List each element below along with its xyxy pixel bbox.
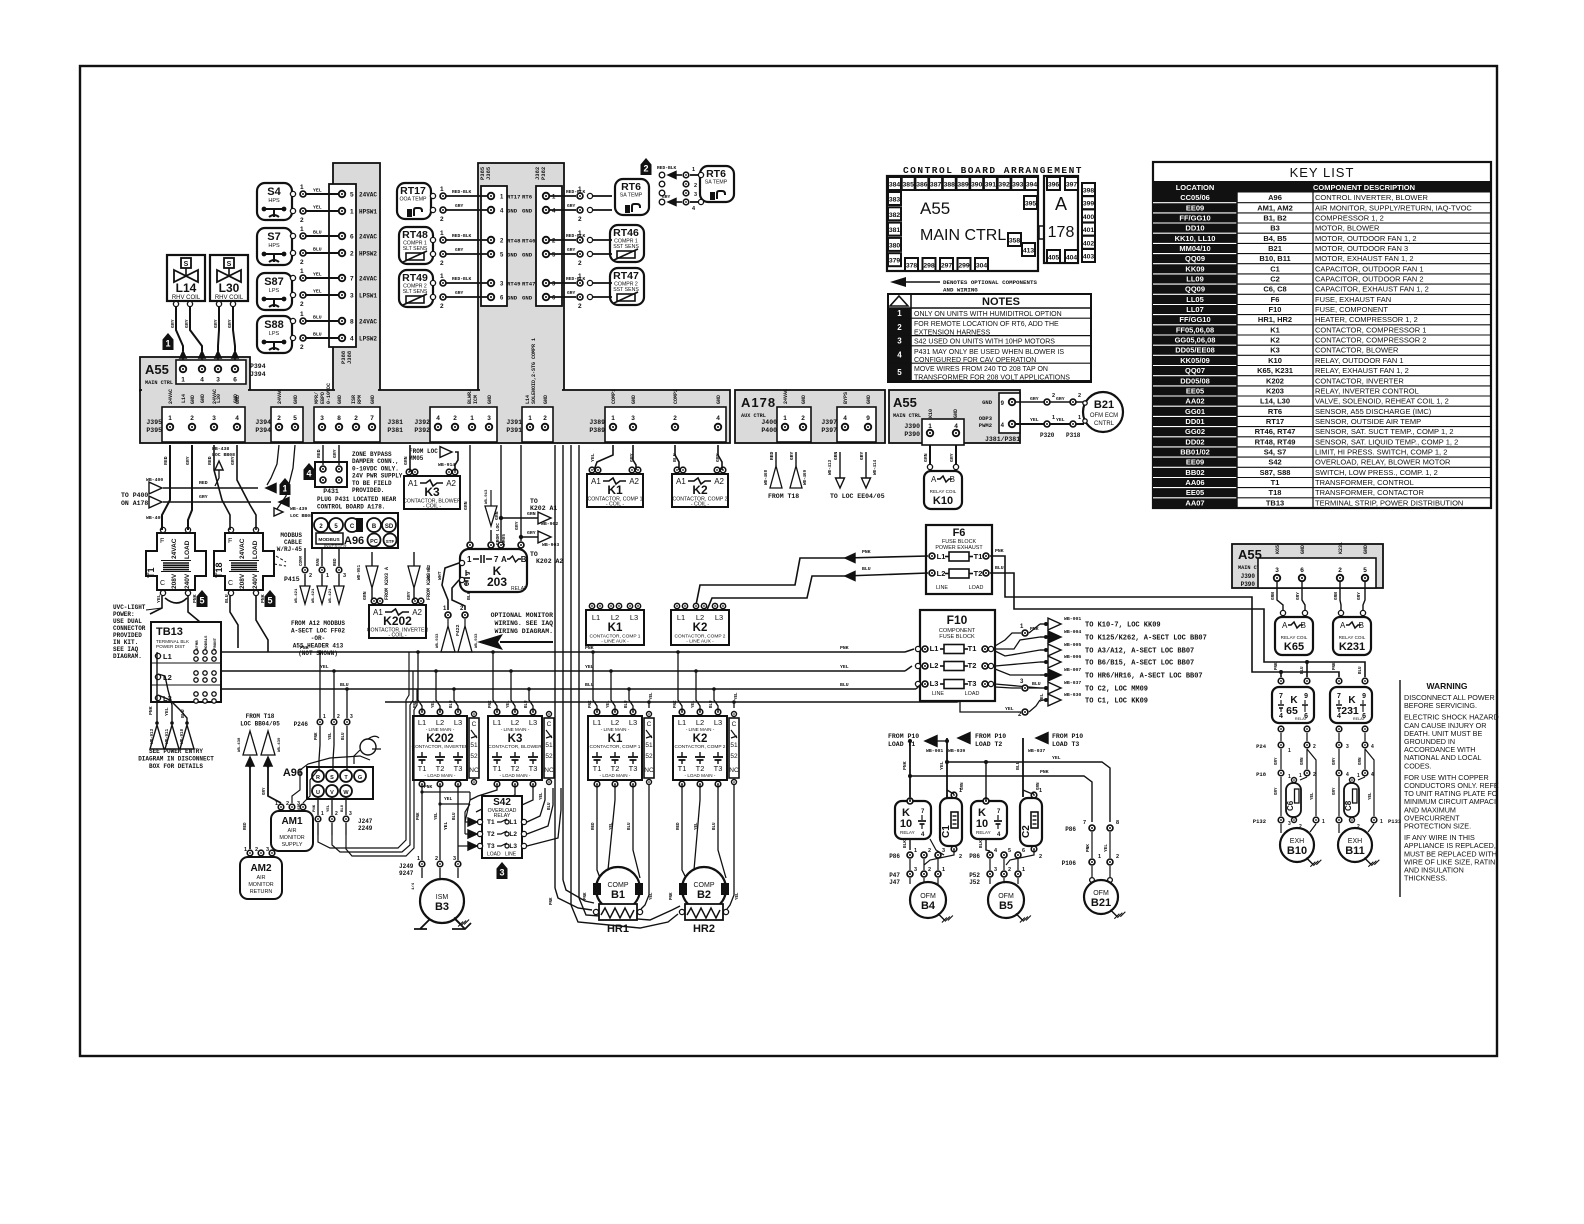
- svg-text:24V PWR SUPPLY: 24V PWR SUPPLY: [352, 473, 403, 480]
- svg-text:L1: L1: [493, 718, 501, 727]
- svg-text:3: 3: [350, 293, 354, 300]
- svg-text:8: 8: [1116, 820, 1119, 826]
- svg-text:3: 3: [1288, 821, 1291, 827]
- svg-text:LPSW2: LPSW2: [359, 336, 377, 343]
- svg-text:YEL: YEL: [692, 700, 696, 708]
- svg-text:B1, B2: B1, B2: [1263, 213, 1286, 222]
- svg-text:SLT SENS: SLT SENS: [403, 246, 428, 252]
- svg-text:3: 3: [453, 856, 456, 862]
- svg-text:WB-903: WB-903: [542, 542, 559, 548]
- svg-text:YEL: YEL: [1005, 706, 1014, 712]
- svg-text:HR2: HR2: [693, 923, 715, 935]
- svg-text:7: 7: [1083, 820, 1086, 826]
- svg-text:OFM ECM: OFM ECM: [1090, 413, 1118, 419]
- svg-text:SA TEMP: SA TEMP: [620, 193, 643, 199]
- svg-text:C: C: [472, 721, 477, 728]
- svg-text:GRN: GRN: [1359, 757, 1363, 765]
- svg-text:T3: T3: [487, 843, 495, 850]
- svg-text:LOC BB08: LOC BB08: [290, 513, 313, 519]
- svg-text:L1: L1: [163, 652, 172, 661]
- svg-text:208V: 208V: [239, 573, 246, 589]
- svg-text:208V: 208V: [171, 573, 178, 589]
- svg-text:SLT SENS: SLT SENS: [403, 289, 428, 295]
- svg-text:CONTROL BOARD ARRANGEMENT: CONTROL BOARD ARRANGEMENT: [903, 165, 1083, 176]
- svg-text:52: 52: [545, 753, 553, 760]
- svg-text:6: 6: [1022, 848, 1025, 854]
- svg-text:1: 1: [300, 268, 304, 275]
- svg-text:BLU: BLU: [224, 594, 230, 603]
- svg-text:RELAY: RELAY: [900, 830, 915, 835]
- svg-text:RED-BLK: RED-BLK: [452, 233, 472, 239]
- svg-text:CONTACTOR, COMP 1: CONTACTOR, COMP 1: [590, 744, 641, 750]
- svg-text:2: 2: [190, 415, 194, 422]
- svg-text:- LINE MAIN -: - LINE MAIN -: [601, 727, 630, 732]
- svg-text:C: C: [547, 721, 552, 728]
- svg-text:1: 1: [897, 309, 902, 318]
- svg-text:EE09: EE09: [1186, 203, 1204, 212]
- svg-text:V: V: [330, 790, 334, 796]
- svg-text:PNK: PNK: [995, 548, 1004, 554]
- svg-text:3: 3: [942, 848, 945, 854]
- svg-text:GRN: GRN: [463, 501, 469, 510]
- svg-text:DD10: DD10: [1185, 224, 1204, 233]
- svg-text:K2: K2: [1270, 336, 1280, 345]
- svg-text:BLK: BLK: [466, 591, 472, 600]
- svg-text:MM05: MM05: [501, 534, 507, 545]
- svg-text:1: 1: [1357, 773, 1360, 779]
- svg-text:PNK: PNK: [862, 549, 871, 555]
- svg-text:P246: P246: [294, 721, 309, 728]
- svg-text:DIAGRAM.: DIAGRAM.: [113, 653, 142, 660]
- svg-text:2: 2: [543, 415, 547, 422]
- svg-text:FF/GG10: FF/GG10: [1179, 315, 1210, 324]
- svg-text:OFM: OFM: [1093, 890, 1109, 897]
- svg-text:PWM2: PWM2: [979, 422, 992, 429]
- svg-text:- LINE AUX -: - LINE AUX -: [686, 639, 714, 645]
- svg-text:GND: GND: [507, 295, 518, 302]
- svg-text:P318: P318: [1066, 432, 1081, 439]
- svg-text:1: 1: [165, 339, 170, 349]
- svg-text:RED-BLK: RED-BLK: [657, 165, 677, 171]
- svg-text:FRONT: FRONT: [214, 637, 218, 650]
- svg-text:(NOT SHOWN): (NOT SHOWN): [298, 650, 338, 657]
- svg-text:1: 1: [692, 167, 695, 173]
- svg-text:T1: T1: [1271, 478, 1280, 487]
- svg-text:S42 USED ON UNITS WITH 10HP MO: S42 USED ON UNITS WITH 10HP MOTORS: [914, 339, 1055, 346]
- svg-text:2: 2: [1052, 393, 1055, 399]
- svg-text:MOTOR, OUTDOOR FAN 1, 2: MOTOR, OUTDOOR FAN 1, 2: [1315, 234, 1417, 243]
- svg-text:P389: P389: [589, 427, 605, 434]
- svg-text:YEL: YEL: [607, 700, 611, 708]
- svg-text:YEL: YEL: [1039, 693, 1045, 702]
- svg-text:1: 1: [1380, 819, 1383, 825]
- svg-text:LPS: LPS: [269, 331, 280, 337]
- svg-text:PNK: PNK: [315, 732, 319, 740]
- svg-text:BLK: BLK: [979, 840, 984, 848]
- svg-text:T2: T2: [974, 569, 983, 578]
- svg-text:K202: K202: [1266, 376, 1284, 385]
- svg-text:GRN: GRN: [362, 591, 368, 600]
- svg-text:4: 4: [235, 415, 239, 422]
- svg-text:CONTACTOR, COMP 2: CONTACTOR, COMP 2: [675, 744, 726, 750]
- svg-text:RELAY, EXHAUST FAN 1, 2: RELAY, EXHAUST FAN 1, 2: [1315, 366, 1409, 375]
- svg-text:MAIN CTRL: MAIN CTRL: [920, 227, 1006, 244]
- svg-text:WIRING. SEE IAQ: WIRING. SEE IAQ: [494, 620, 553, 627]
- svg-text:C8: C8: [1344, 800, 1353, 811]
- svg-text:GND: GND: [487, 395, 493, 404]
- svg-text:FUSE, EXHAUST FAN: FUSE, EXHAUST FAN: [1315, 295, 1391, 304]
- svg-text:A55: A55: [920, 199, 950, 218]
- svg-text:ONLY ON UNITS WITH HUMIDITROL: ONLY ON UNITS WITH HUMIDITROL OPTION: [914, 311, 1062, 318]
- svg-text:BEFORE SERVICING.: BEFORE SERVICING.: [1404, 701, 1477, 710]
- svg-text:LOAD T2: LOAD T2: [975, 741, 1002, 748]
- svg-text:RELAY, INVERTER CONTROL: RELAY, INVERTER CONTROL: [1315, 386, 1419, 395]
- svg-text:S: S: [227, 261, 232, 268]
- svg-text:403: 403: [1083, 254, 1095, 261]
- svg-text:LOC BB08: LOC BB08: [212, 452, 235, 458]
- svg-text:POWER DIST: POWER DIST: [156, 644, 185, 649]
- svg-text:5: 5: [1363, 567, 1367, 574]
- svg-text:1: 1: [578, 186, 582, 193]
- svg-text:RED-BLK: RED-BLK: [566, 276, 586, 282]
- svg-text:383: 383: [889, 197, 901, 204]
- svg-text:T2: T2: [436, 764, 445, 773]
- svg-text:2: 2: [801, 415, 805, 422]
- svg-text:178: 178: [1048, 224, 1075, 241]
- svg-text:RT46: RT46: [522, 238, 536, 245]
- svg-text:SWITCH, LOW PRESS., COMP. 1, 2: SWITCH, LOW PRESS., COMP. 1, 2: [1315, 468, 1438, 477]
- svg-text:SOLENOID,2-STG COMPR 1: SOLENOID,2-STG COMPR 1: [531, 338, 537, 404]
- svg-text:2: 2: [1039, 854, 1042, 860]
- svg-text:1: 1: [300, 184, 304, 191]
- svg-text:CABLE: CABLE: [284, 539, 302, 546]
- svg-text:AM1: AM1: [281, 816, 303, 827]
- svg-text:LOAD: LOAD: [487, 852, 501, 858]
- svg-text:1: 1: [470, 415, 474, 422]
- svg-text:1: 1: [914, 848, 917, 854]
- svg-text:GND: GND: [522, 252, 533, 259]
- svg-text:C: C: [228, 580, 233, 587]
- svg-text:OVERLOAD, RELAY, BLOWER MOTOR: OVERLOAD, RELAY, BLOWER MOTOR: [1315, 458, 1451, 467]
- svg-text:7: 7: [1279, 693, 1283, 700]
- svg-text:WB-004: WB-004: [1064, 629, 1081, 635]
- svg-text:-OR-: -OR-: [311, 635, 325, 642]
- svg-text:A178: A178: [741, 395, 776, 410]
- svg-text:C: C: [732, 721, 737, 728]
- svg-text:GRN: GRN: [923, 453, 929, 462]
- svg-text:LIMIT, HI PRESS. SWITCH, COMP: LIMIT, HI PRESS. SWITCH, COMP 1, 2: [1315, 448, 1447, 457]
- svg-text:QQ07: QQ07: [1185, 366, 1205, 375]
- svg-text:B11: B11: [1345, 845, 1365, 857]
- svg-text:SST SENS: SST SENS: [613, 244, 639, 250]
- svg-text:P381: P381: [387, 427, 403, 434]
- svg-text:DD05/EE08: DD05/EE08: [1175, 346, 1215, 355]
- svg-text:1: 1: [928, 423, 932, 430]
- svg-text:YEL: YEL: [435, 812, 439, 820]
- svg-text:WB-933: WB-933: [436, 633, 440, 648]
- svg-text:SEE POWER ENTRY: SEE POWER ENTRY: [149, 748, 203, 755]
- svg-text:1: 1: [1288, 748, 1291, 754]
- svg-text:L14: L14: [181, 394, 187, 403]
- svg-text:0-10VDC ONLY.: 0-10VDC ONLY.: [352, 465, 399, 472]
- svg-text:P390: P390: [904, 431, 920, 438]
- svg-text:304: 304: [976, 263, 988, 270]
- svg-text:FROM T18: FROM T18: [246, 713, 275, 720]
- svg-text:RT47: RT47: [613, 270, 639, 282]
- svg-text:2: 2: [959, 854, 962, 860]
- svg-text:HPSW2: HPSW2: [359, 251, 377, 258]
- svg-text:2: 2: [694, 183, 697, 189]
- svg-text:WB-910: WB-910: [181, 728, 185, 744]
- svg-text:380: 380: [889, 242, 901, 249]
- svg-text:2: 2: [354, 415, 358, 422]
- svg-text:CAPACITOR, OUTDOOR FAN 1: CAPACITOR, OUTDOOR FAN 1: [1315, 264, 1424, 273]
- svg-text:B4, B5: B4, B5: [1263, 234, 1286, 243]
- svg-text:3: 3: [914, 867, 917, 873]
- svg-text:GRY: GRY: [567, 290, 576, 296]
- svg-text:MONITOR: MONITOR: [248, 882, 273, 888]
- svg-text:RT49: RT49: [507, 281, 521, 288]
- svg-text:YEL: YEL: [320, 664, 329, 670]
- svg-text:2: 2: [300, 217, 304, 224]
- svg-text:GND: GND: [953, 409, 959, 418]
- svg-text:CNTRL: CNTRL: [1094, 421, 1115, 427]
- svg-text:RT6: RT6: [1268, 407, 1282, 416]
- svg-text:B10: B10: [1287, 845, 1307, 857]
- svg-text:SENSOR, SAT. LIQUID TEMP., COM: SENSOR, SAT. LIQUID TEMP., COMP 1, 2: [1315, 437, 1458, 446]
- svg-text:YEL: YEL: [650, 892, 654, 900]
- svg-text:F: F: [160, 538, 164, 545]
- svg-text:GRY: GRY: [406, 591, 412, 600]
- svg-text:K2: K2: [692, 483, 708, 497]
- svg-text:- COIL -: - COIL -: [606, 502, 625, 508]
- svg-text:TRANSFORMER, CONTACTOR: TRANSFORMER, CONTACTOR: [1315, 488, 1424, 497]
- svg-text:LL05: LL05: [1186, 295, 1204, 304]
- svg-text:L3: L3: [454, 718, 462, 727]
- svg-text:C6: C6: [1286, 800, 1295, 811]
- svg-text:POWER EXHAUST: POWER EXHAUST: [935, 545, 983, 551]
- svg-text:K1: K1: [608, 733, 623, 745]
- svg-text:YEL: YEL: [1030, 417, 1039, 423]
- svg-text:A1: A1: [408, 479, 418, 488]
- svg-text:CONTACTOR, COMPRESSOR 1: CONTACTOR, COMPRESSOR 1: [1315, 325, 1426, 334]
- svg-text:AA06: AA06: [1185, 478, 1204, 487]
- svg-text:LINE: LINE: [505, 852, 517, 858]
- svg-text:FUSE, COMPONENT: FUSE, COMPONENT: [1315, 305, 1388, 314]
- svg-text:TO: TO: [530, 498, 538, 505]
- svg-text:GND: GND: [982, 399, 993, 406]
- svg-text:A1: A1: [373, 608, 383, 617]
- svg-text:COMP2: COMP2: [673, 389, 679, 404]
- svg-text:S88: S88: [264, 319, 284, 331]
- svg-text:WB-413: WB-413: [829, 459, 833, 475]
- svg-text:GRY: GRY: [1357, 592, 1362, 600]
- svg-text:GRY: GRY: [1275, 787, 1279, 795]
- svg-text:GRY: GRY: [662, 194, 671, 200]
- svg-text:K1: K1: [1270, 325, 1280, 334]
- svg-text:MM04/10: MM04/10: [1179, 244, 1210, 253]
- svg-text:WB-439: WB-439: [290, 506, 307, 512]
- svg-text:J249: J249: [399, 863, 414, 870]
- svg-text:P52: P52: [969, 872, 980, 879]
- svg-text:1: 1: [1098, 854, 1101, 860]
- svg-text:24VAC: 24VAC: [212, 389, 218, 404]
- svg-text:2: 2: [300, 259, 304, 266]
- svg-text:GND: GND: [337, 395, 343, 404]
- svg-text:3: 3: [897, 337, 902, 346]
- svg-text:9: 9: [1304, 693, 1308, 700]
- svg-text:4: 4: [897, 351, 902, 360]
- svg-text:399: 399: [1083, 201, 1095, 208]
- svg-text:THICKNESS.: THICKNESS.: [1404, 874, 1447, 883]
- svg-text:52: 52: [730, 753, 738, 760]
- svg-text:GRY: GRY: [455, 203, 464, 209]
- svg-text:51: 51: [645, 742, 653, 749]
- svg-text:T2: T2: [696, 764, 705, 773]
- svg-text:SENSOR, OUTSIDE AIR TEMP: SENSOR, OUTSIDE AIR TEMP: [1315, 417, 1421, 426]
- svg-text:WB-439: WB-439: [278, 737, 282, 752]
- svg-text:RT6: RT6: [621, 181, 641, 193]
- svg-text:- COIL -: - COIL -: [388, 633, 407, 639]
- svg-text:B4: B4: [921, 900, 936, 912]
- svg-text:AIR: AIR: [288, 828, 297, 834]
- svg-text:A2: A2: [714, 477, 724, 486]
- svg-text:MOTOR, EXHAUST FAN 1, 2: MOTOR, EXHAUST FAN 1, 2: [1315, 254, 1414, 263]
- svg-text:413: 413: [1023, 248, 1035, 255]
- svg-text:P394: P394: [250, 363, 266, 370]
- svg-text:R: R: [316, 775, 320, 781]
- svg-text:T1: T1: [146, 567, 156, 578]
- svg-text:1: 1: [1299, 773, 1302, 779]
- svg-text:T18: T18: [214, 562, 224, 578]
- svg-text:1: 1: [1078, 415, 1081, 421]
- svg-text:K231: K231: [1339, 641, 1365, 653]
- svg-text:YEL: YEL: [1311, 792, 1315, 800]
- svg-text:400: 400: [1083, 214, 1095, 221]
- svg-text:1: 1: [611, 415, 615, 422]
- svg-text:24VAC: 24VAC: [168, 389, 174, 404]
- svg-text:RT46: RT46: [613, 227, 639, 239]
- svg-text:T3: T3: [454, 764, 463, 773]
- svg-text:- LINE AUX -: - LINE AUX -: [601, 639, 629, 645]
- svg-text:4: 4: [1337, 713, 1341, 720]
- svg-text:S7: S7: [267, 231, 280, 243]
- svg-text:T3: T3: [629, 764, 638, 773]
- svg-text:PNK: PNK: [550, 897, 554, 905]
- svg-text:2: 2: [286, 801, 289, 807]
- svg-text:TB13: TB13: [156, 626, 183, 638]
- svg-text:GRY: GRY: [789, 451, 795, 460]
- svg-text:PC: PC: [370, 539, 378, 545]
- svg-text:TRANSFORMER, CONTROL: TRANSFORMER, CONTROL: [1315, 478, 1414, 487]
- svg-text:BLU: BLU: [180, 709, 186, 718]
- svg-text:PNK: PNK: [148, 706, 154, 715]
- svg-text:51: 51: [545, 742, 553, 749]
- svg-text:P18: P18: [1256, 771, 1267, 778]
- svg-text:385: 385: [903, 182, 915, 189]
- svg-text:HPS: HPS: [268, 198, 280, 204]
- svg-text:MOVE WIRES FROM 240 TO 208 TAP: MOVE WIRES FROM 240 TO 208 TAP ON: [914, 366, 1048, 373]
- svg-text:TB13: TB13: [1266, 498, 1284, 507]
- svg-text:A2: A2: [446, 479, 456, 488]
- svg-text:MODBLS: MODBLS: [205, 635, 209, 650]
- svg-text:24VAC: 24VAC: [783, 389, 789, 404]
- svg-text:BLU: BLU: [313, 315, 322, 321]
- svg-text:3: 3: [350, 714, 353, 720]
- svg-text:BLU: BLU: [625, 700, 629, 708]
- svg-text:LINE: LINE: [936, 585, 948, 591]
- svg-text:1: 1: [323, 714, 326, 720]
- svg-text:P390: P390: [1241, 581, 1256, 588]
- svg-text:LL09: LL09: [1186, 274, 1204, 283]
- svg-text:YEL: YEL: [507, 700, 511, 708]
- svg-text:RELAY, OUTDOOR FAN 1: RELAY, OUTDOOR FAN 1: [1315, 356, 1404, 365]
- svg-text:NC: NC: [469, 767, 479, 774]
- svg-text:K203: K203: [1266, 386, 1284, 395]
- svg-text:YEL: YEL: [1104, 844, 1109, 852]
- svg-text:A2: A2: [629, 477, 639, 486]
- svg-text:24VAC: 24VAC: [359, 276, 377, 283]
- svg-text:UVC-LIGHT: UVC-LIGHT: [113, 604, 146, 611]
- svg-text:L2: L2: [930, 661, 939, 670]
- svg-text:B3: B3: [435, 901, 449, 913]
- svg-text:3: 3: [343, 573, 346, 579]
- svg-text:P431 MAY ONLY BE USED WHEN BLO: P431 MAY ONLY BE USED WHEN BLOWER IS: [914, 349, 1064, 356]
- svg-text:TO A3/A12, A-SECT LOC BB07: TO A3/A12, A-SECT LOC BB07: [1085, 648, 1194, 656]
- svg-text:2: 2: [578, 216, 582, 223]
- svg-text:MONITOR: MONITOR: [279, 835, 304, 841]
- svg-text:384: 384: [889, 182, 901, 189]
- svg-text:GRY: GRY: [184, 319, 190, 328]
- svg-text:RT48, RT49: RT48, RT49: [1255, 437, 1296, 446]
- svg-text:RED: RED: [334, 558, 338, 566]
- svg-text:B21: B21: [1091, 897, 1111, 909]
- svg-text:CONTACTOR, INVERTER: CONTACTOR, INVERTER: [1315, 376, 1404, 385]
- svg-text:TO B6/B15, A-SECT LOC BB07: TO B6/B15, A-SECT LOC BB07: [1085, 660, 1194, 668]
- svg-text:CONTACTOR, INVERTER: CONTACTOR, INVERTER: [412, 744, 469, 750]
- svg-text:MOTOR, OUTDOOR FAN 3: MOTOR, OUTDOOR FAN 3: [1315, 244, 1408, 253]
- svg-text:LPS: LPS: [269, 288, 280, 294]
- svg-text:J394: J394: [250, 371, 266, 378]
- svg-text:T1: T1: [487, 819, 495, 826]
- svg-text:C: C: [647, 721, 652, 728]
- svg-text:1/4: 1/4: [411, 882, 416, 890]
- svg-text:MOTOR, BLOWER: MOTOR, BLOWER: [1315, 224, 1380, 233]
- svg-text:GRY: GRY: [1275, 757, 1279, 765]
- svg-text:BLU: BLU: [313, 247, 322, 253]
- svg-text:J52: J52: [969, 879, 980, 886]
- svg-text:4: 4: [954, 423, 958, 430]
- svg-text:RELAY COIL: RELAY COIL: [1339, 635, 1366, 640]
- svg-text:WB-911: WB-911: [166, 728, 170, 744]
- svg-text:GRY: GRY: [1296, 592, 1301, 600]
- svg-text:3: 3: [631, 415, 635, 422]
- svg-text:DD01: DD01: [1185, 417, 1204, 426]
- svg-text:NC: NC: [644, 767, 654, 774]
- svg-text:3: 3: [1275, 567, 1279, 574]
- svg-text:AIR MONITOR, SUPPLY/RETURN, IA: AIR MONITOR, SUPPLY/RETURN, IAQ-TVOC: [1315, 203, 1472, 212]
- svg-text:WB-933: WB-933: [475, 633, 479, 648]
- svg-text:TO: TO: [530, 551, 538, 558]
- svg-text:10: 10: [976, 818, 988, 830]
- svg-text:BOX FOR DETAILS: BOX FOR DETAILS: [149, 763, 203, 770]
- svg-text:W/RJ-45: W/RJ-45: [277, 546, 303, 553]
- svg-text:G: G: [358, 775, 362, 781]
- svg-text:2: 2: [928, 848, 931, 854]
- svg-text:HEATER, COMPRESSOR 1, 2: HEATER, COMPRESSOR 1, 2: [1315, 315, 1418, 324]
- svg-text:A55: A55: [145, 362, 169, 377]
- svg-text:A: A: [501, 555, 507, 564]
